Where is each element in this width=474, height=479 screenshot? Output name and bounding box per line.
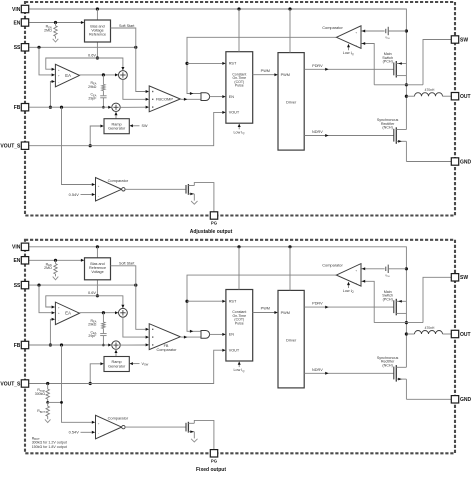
svg-text:PG: PG xyxy=(211,221,218,226)
svg-text:OUT: OUT xyxy=(460,94,471,100)
svg-text:FB: FB xyxy=(14,343,21,349)
svg-text:2MΩ: 2MΩ xyxy=(44,28,52,32)
svg-text:NDRV: NDRV xyxy=(312,130,323,134)
svg-text:EN: EN xyxy=(13,258,20,264)
svg-text:29pF: 29pF xyxy=(88,96,96,100)
svg-text:GND: GND xyxy=(460,159,472,165)
svg-text:VIN: VIN xyxy=(12,245,21,251)
svg-text:SS: SS xyxy=(14,283,21,289)
svg-text:(PCH): (PCH) xyxy=(383,297,393,301)
svg-text:Generator: Generator xyxy=(108,127,126,131)
svg-text:Pulse: Pulse xyxy=(235,321,244,325)
svg-text:+: + xyxy=(355,268,357,272)
svg-text:Fixed output: Fixed output xyxy=(196,467,226,473)
svg-text:SW: SW xyxy=(460,275,468,281)
svg-text:Voltage: Voltage xyxy=(91,270,103,274)
svg-text:Soft Start: Soft Start xyxy=(119,24,134,28)
svg-text:Low IQ: Low IQ xyxy=(343,289,354,294)
svg-text:NDRV: NDRV xyxy=(312,368,323,372)
svg-text:EA: EA xyxy=(65,311,71,316)
svg-text:Soft Start: Soft Start xyxy=(119,262,134,266)
svg-text:470nH: 470nH xyxy=(425,326,435,330)
svg-text:PWM: PWM xyxy=(261,307,270,311)
svg-text:Pulse: Pulse xyxy=(235,84,244,88)
svg-text:+: + xyxy=(58,306,60,310)
svg-text:Comparator: Comparator xyxy=(108,178,129,183)
svg-text:Comparator: Comparator xyxy=(156,348,177,352)
svg-text:+: + xyxy=(58,68,60,72)
svg-text:EN: EN xyxy=(229,95,235,99)
svg-text:GND: GND xyxy=(460,397,472,403)
svg-text:PDRV: PDRV xyxy=(312,302,323,306)
svg-text:(NCH): (NCH) xyxy=(382,126,392,130)
svg-text:-: - xyxy=(98,432,99,436)
svg-text:VOUT: VOUT xyxy=(229,111,240,115)
svg-text:Comparator: Comparator xyxy=(108,416,129,421)
svg-text:-: - xyxy=(58,80,59,84)
svg-text:Generator: Generator xyxy=(108,364,126,368)
svg-text:+: + xyxy=(355,31,357,35)
svg-text:FBCOMP: FBCOMP xyxy=(156,96,173,101)
svg-text:300kΩ: 300kΩ xyxy=(35,392,46,396)
svg-text:-: - xyxy=(356,281,357,285)
svg-text:PG: PG xyxy=(211,459,218,464)
svg-text:29kΩ: 29kΩ xyxy=(88,323,97,327)
svg-text:150kΩ for 1.8V output: 150kΩ for 1.8V output xyxy=(32,445,67,449)
svg-text:2MΩ: 2MΩ xyxy=(44,266,52,270)
svg-text:VOUT_S: VOUT_S xyxy=(0,381,21,387)
svg-text:SS: SS xyxy=(14,45,21,51)
svg-text:-: - xyxy=(58,318,59,322)
svg-text:PWM: PWM xyxy=(281,311,290,315)
svg-text:+: + xyxy=(98,422,100,426)
svg-text:-: - xyxy=(356,43,357,47)
svg-text:Comparator: Comparator xyxy=(322,25,343,30)
svg-text:-: - xyxy=(98,194,99,198)
svg-text:0.54V: 0.54V xyxy=(69,430,80,435)
svg-text:PDRV: PDRV xyxy=(312,64,323,68)
svg-text:OUT: OUT xyxy=(460,332,471,338)
svg-text:(PCH): (PCH) xyxy=(383,60,393,64)
svg-text:VIN: VIN xyxy=(12,7,21,13)
svg-text:RST: RST xyxy=(229,62,237,66)
svg-text:+: + xyxy=(98,184,100,188)
svg-text:Driver: Driver xyxy=(286,338,297,342)
svg-text:SW: SW xyxy=(460,37,468,43)
svg-text:Comparator: Comparator xyxy=(322,263,343,268)
svg-text:(NCH): (NCH) xyxy=(382,363,392,367)
svg-text:0.6V: 0.6V xyxy=(88,290,96,295)
svg-text:470nH: 470nH xyxy=(425,88,435,92)
svg-text:VSW: VSW xyxy=(142,362,149,367)
svg-text:+: + xyxy=(58,73,60,77)
svg-text:EN: EN xyxy=(13,20,20,26)
svg-text:SW: SW xyxy=(142,124,148,128)
svg-text:EA: EA xyxy=(65,73,71,78)
svg-text:PWM: PWM xyxy=(261,69,270,73)
svg-text:RST: RST xyxy=(229,299,237,303)
svg-text:FB: FB xyxy=(14,105,21,111)
svg-text:+: + xyxy=(58,311,60,315)
svg-text:0.54V: 0.54V xyxy=(69,192,80,197)
svg-text:Driver: Driver xyxy=(286,101,297,105)
svg-text:PWM: PWM xyxy=(281,73,290,77)
svg-text:0.6V: 0.6V xyxy=(88,52,96,57)
svg-text:EN: EN xyxy=(229,333,235,337)
svg-text:Adjustable output: Adjustable output xyxy=(190,229,233,235)
svg-text:Reference: Reference xyxy=(89,32,106,36)
svg-text:29kΩ: 29kΩ xyxy=(88,85,97,89)
svg-text:VOUT_S: VOUT_S xyxy=(0,144,21,150)
svg-text:VOUT: VOUT xyxy=(229,349,240,353)
svg-text:29pF: 29pF xyxy=(88,334,96,338)
